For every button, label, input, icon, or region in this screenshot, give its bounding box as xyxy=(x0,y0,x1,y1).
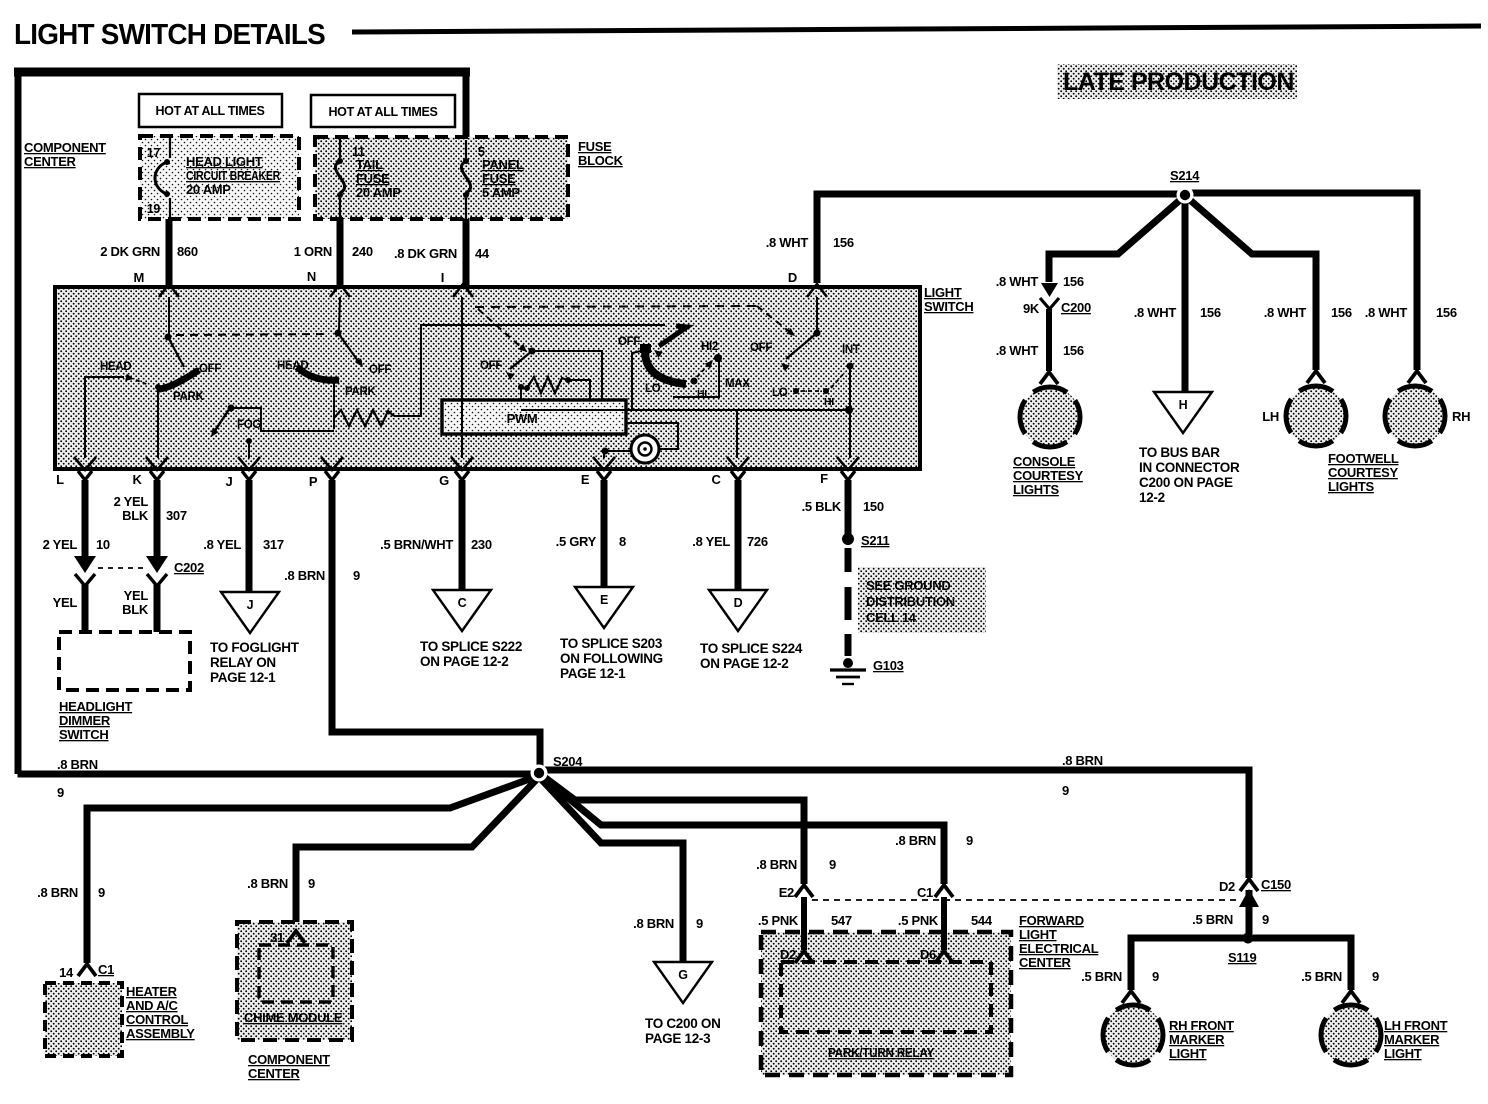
svg-text:S214: S214 xyxy=(1170,168,1200,183)
svg-text:317: 317 xyxy=(263,537,284,552)
svg-text:.8 WHT: .8 WHT xyxy=(1134,305,1177,320)
svg-text:9: 9 xyxy=(1062,783,1069,798)
svg-text:DISTRIBUTION: DISTRIBUTION xyxy=(866,594,955,609)
svg-text:.8 DK GRN: .8 DK GRN xyxy=(394,246,457,261)
svg-text:ASSEMBLY: ASSEMBLY xyxy=(126,1026,195,1041)
svg-text:.8 BRN: .8 BRN xyxy=(37,885,78,900)
terminal chevron bottom xyxy=(74,457,96,470)
svg-text:2 YEL: 2 YEL xyxy=(114,494,149,509)
wire PARK2 contact down xyxy=(331,378,337,384)
circuit breaker symbol xyxy=(169,137,171,158)
svg-text:156: 156 xyxy=(1436,305,1457,320)
svg-text:10: 10 xyxy=(96,537,110,552)
svg-text:C: C xyxy=(711,472,721,487)
switch pivot M xyxy=(168,297,170,334)
svg-text:31: 31 xyxy=(270,930,284,945)
svg-text:BLK: BLK xyxy=(122,508,149,523)
svg-text:YEL: YEL xyxy=(53,595,78,610)
svg-text:307: 307 xyxy=(166,508,187,523)
svg-text:RH: RH xyxy=(1452,409,1470,424)
svg-text:LIGHTS: LIGHTS xyxy=(1328,479,1374,494)
svg-text:OFF: OFF xyxy=(369,364,391,376)
terminal chevron bottom xyxy=(321,457,343,470)
svg-text:.8 YEL: .8 YEL xyxy=(692,534,730,549)
svg-text:ON PAGE 12-2: ON PAGE 12-2 xyxy=(700,656,788,671)
svg-text:LO: LO xyxy=(645,383,661,395)
svg-text:.8 YEL: .8 YEL xyxy=(203,537,241,552)
svg-text:CONTROL: CONTROL xyxy=(126,1012,189,1027)
switch pivot PWM OFF xyxy=(529,348,536,355)
svg-text:LH FRONT: LH FRONT xyxy=(1384,1018,1448,1033)
svg-text:150: 150 xyxy=(863,499,884,514)
svg-text:.8 WHT: .8 WHT xyxy=(996,274,1039,289)
dashed knob link line xyxy=(475,306,757,307)
svg-text:9K: 9K xyxy=(1023,301,1040,316)
wire S119 to LH marker xyxy=(1252,938,1351,990)
svg-text:HI: HI xyxy=(697,388,707,400)
wire E terminal to motor xyxy=(602,448,609,455)
component box park turn relay outer xyxy=(761,932,1011,1075)
component box HEATER AND A/C CONTROL ASSEMBLY xyxy=(45,983,122,1056)
svg-text:9: 9 xyxy=(1152,969,1159,984)
tag HOT AT ALL TIMES 2 xyxy=(311,95,455,127)
svg-text:MARKER: MARKER xyxy=(1169,1032,1225,1047)
switch blade D to OFF xyxy=(786,333,817,359)
svg-text:.5 GRY: .5 GRY xyxy=(556,534,597,549)
svg-text:156: 156 xyxy=(1063,343,1084,358)
wire 317 .8 YEL terminal J to foglight connector xyxy=(246,480,253,592)
wire resistor to dimmer feed xyxy=(394,325,665,416)
dashed link arrow to PWM switch xyxy=(478,309,522,348)
svg-text:AND A/C: AND A/C xyxy=(126,998,178,1013)
lamp RH front marker xyxy=(1122,991,1140,1003)
terminal chevron top xyxy=(330,284,350,297)
svg-text:8: 8 xyxy=(619,534,626,549)
svg-text:.5 BLK: .5 BLK xyxy=(802,499,842,514)
component box COMPONENT CENTER chime outer xyxy=(237,922,352,1040)
terminal chevron bottom xyxy=(146,457,168,470)
dimmer OFF contact xyxy=(640,344,651,353)
wire L to HEAD contact xyxy=(85,377,124,458)
svg-text:J: J xyxy=(247,598,254,612)
svg-text:9: 9 xyxy=(57,785,64,800)
svg-text:PAGE 12-3: PAGE 12-3 xyxy=(645,1031,711,1046)
svg-text:M: M xyxy=(133,270,144,285)
svg-text:TO SPLICE S203: TO SPLICE S203 xyxy=(560,636,663,651)
lamp RH footwell xyxy=(1408,371,1426,383)
mechanical link dashed switch1-switch2 xyxy=(176,334,330,335)
svg-text:9: 9 xyxy=(308,876,315,891)
note SEE GROUND DISTRIBUTION CELL 14 xyxy=(858,567,986,633)
switch pivot D xyxy=(816,297,818,330)
terminal chevron bottom xyxy=(451,457,473,470)
wire S119 to RH marker xyxy=(1131,938,1245,990)
off-page connector J foglight relay xyxy=(221,592,279,633)
dimmer rheostat arc xyxy=(645,351,686,384)
component box HEADLIGHT DIMMER SWITCH xyxy=(59,632,190,690)
svg-text:C1: C1 xyxy=(98,962,114,977)
off-page connector G to C200 xyxy=(654,962,712,1003)
svg-text:C200 ON PAGE: C200 ON PAGE xyxy=(1139,475,1233,490)
wire FOG contact to J xyxy=(246,438,252,444)
svg-text:.8 BRN: .8 BRN xyxy=(247,876,288,891)
relay terminal D6 xyxy=(935,951,953,963)
wire INT to F xyxy=(849,366,851,458)
dimmer frame lines xyxy=(632,351,641,410)
svg-text:OFF: OFF xyxy=(480,360,502,372)
wire S214 to H connector xyxy=(1182,199,1189,391)
svg-text:44: 44 xyxy=(475,246,490,261)
svg-text:N: N xyxy=(307,269,316,284)
component box CHIME MODULE inner xyxy=(259,945,333,1002)
svg-text:C200: C200 xyxy=(1061,300,1091,315)
svg-text:.8 WHT: .8 WHT xyxy=(1264,305,1307,320)
svg-text:K: K xyxy=(132,472,142,487)
wire S204 to C150 marker lights xyxy=(539,770,1249,878)
svg-text:.8 BRN: .8 BRN xyxy=(895,833,936,848)
svg-text:FOG: FOG xyxy=(237,419,261,431)
svg-text:BLK: BLK xyxy=(122,602,149,617)
svg-text:HEATER: HEATER xyxy=(126,984,178,999)
svg-text:D2: D2 xyxy=(1219,879,1235,894)
svg-text:547: 547 xyxy=(831,913,852,928)
svg-text:J: J xyxy=(226,474,233,489)
svg-text:CONSOLE: CONSOLE xyxy=(1013,454,1076,469)
wire PWM to motor loop xyxy=(626,423,678,449)
svg-text:CENTER: CENTER xyxy=(248,1066,301,1081)
svg-text:.5 PNK: .5 PNK xyxy=(898,913,939,928)
svg-text:HI2: HI2 xyxy=(701,341,718,353)
svg-text:OFF: OFF xyxy=(199,363,221,375)
svg-text:156: 156 xyxy=(833,235,854,250)
svg-text:860: 860 xyxy=(177,244,198,259)
wire 230 .5 BRN-WHT terminal G to splice connector xyxy=(459,480,466,590)
svg-text:.8 BRN: .8 BRN xyxy=(633,916,674,931)
motor symbol xyxy=(631,435,659,463)
banner LATE PRODUCTION xyxy=(1057,64,1297,99)
svg-text:.8 BRN: .8 BRN xyxy=(756,857,797,872)
rheostat contact xyxy=(518,384,524,390)
svg-text:.8 WHT: .8 WHT xyxy=(996,343,1039,358)
svg-text:RH FRONT: RH FRONT xyxy=(1169,1018,1234,1033)
svg-text:F: F xyxy=(820,471,828,486)
svg-text:HOT AT ALL TIMES: HOT AT ALL TIMES xyxy=(328,105,437,119)
switch FOG pivot and feed xyxy=(228,405,235,412)
dimmer HI contact and dashed arrow xyxy=(691,378,698,385)
svg-text:COURTESY: COURTESY xyxy=(1013,468,1083,483)
tag HOT AT ALL TIMES 1 xyxy=(139,94,282,127)
wire 726 .8 YEL terminal C to splice connector xyxy=(735,480,742,590)
svg-text:20 AMP: 20 AMP xyxy=(186,182,231,197)
svg-text:YEL: YEL xyxy=(124,588,149,603)
wire S204 to chime module xyxy=(296,779,537,930)
svg-text:LIGHTS: LIGHTS xyxy=(1013,482,1059,497)
svg-text:TO BUS BAR: TO BUS BAR xyxy=(1139,445,1220,460)
svg-text:SWITCH: SWITCH xyxy=(924,299,973,314)
terminal chevron top xyxy=(453,284,473,297)
terminal chevron top xyxy=(807,284,827,297)
wire 150 .5 BLK terminal F to S211 xyxy=(845,480,852,534)
svg-text:.5 PNK: .5 PNK xyxy=(758,913,799,928)
svg-text:LIGHT SWITCH DETAILS: LIGHT SWITCH DETAILS xyxy=(14,19,325,51)
connector C202 xyxy=(74,556,96,573)
off-page connector H to bus bar xyxy=(1154,392,1212,433)
svg-text:S119: S119 xyxy=(1228,950,1257,965)
svg-text:E: E xyxy=(600,593,608,607)
svg-text:CELL 14: CELL 14 xyxy=(866,610,917,625)
svg-text:TO FOGLIGHT: TO FOGLIGHT xyxy=(210,640,300,655)
svg-text:PARK/TURN RELAY: PARK/TURN RELAY xyxy=(828,1045,935,1060)
switch blade 2 wiper arc xyxy=(297,367,339,380)
wire C200 to console lamp xyxy=(1046,309,1052,371)
connector C150 D2 xyxy=(1240,879,1258,891)
wire S204 to E2 park-turn relay xyxy=(543,776,804,884)
svg-text:FUSE: FUSE xyxy=(356,171,390,186)
wire 240 1 ORN tail fuse to terminal N xyxy=(337,219,344,287)
dashed connector line E2 C1 C150 xyxy=(812,899,1240,901)
svg-text:D2: D2 xyxy=(780,947,796,962)
svg-text:G: G xyxy=(678,968,687,982)
svg-text:2 YEL: 2 YEL xyxy=(43,537,78,552)
svg-text:INT: INT xyxy=(842,344,860,356)
dashed arrow to HEAD contact xyxy=(125,374,134,381)
wire S204 to C1 park-turn relay xyxy=(545,779,944,884)
svg-text:COURTESY: COURTESY xyxy=(1328,465,1398,480)
svg-text:LO: LO xyxy=(772,387,788,399)
wire rheostat to PWM box xyxy=(568,380,590,400)
svg-text:E: E xyxy=(581,472,590,487)
svg-text:TO SPLICE S222: TO SPLICE S222 xyxy=(420,639,522,654)
fuse PANEL FUSE symbol xyxy=(465,140,467,158)
wire 544 .5 PNK C1 to relay D6 xyxy=(941,897,947,950)
svg-text:LIGHT: LIGHT xyxy=(924,285,962,300)
svg-text:PANEL: PANEL xyxy=(482,157,524,172)
off-page connector E splice S203 xyxy=(575,587,633,628)
wire I-G line over PWM box xyxy=(461,400,463,434)
svg-text:.8 WHT: .8 WHT xyxy=(1365,305,1408,320)
wire dimmer bus xyxy=(521,409,849,411)
dashed link arrow to dome switch xyxy=(757,306,791,333)
wire YEL to headlight dimmer switch xyxy=(82,584,89,634)
svg-text:HEAD LIGHT: HEAD LIGHT xyxy=(186,154,263,169)
svg-text:.5 BRN: .5 BRN xyxy=(1301,969,1342,984)
resistor park feed zigzag xyxy=(334,410,394,426)
connector C200 xyxy=(1041,283,1058,297)
component box fuse block xyxy=(315,137,568,219)
svg-text:156: 156 xyxy=(1200,305,1221,320)
svg-text:PAGE 12-1: PAGE 12-1 xyxy=(560,666,626,681)
wire pivot to PWM box xyxy=(532,351,602,400)
svg-text:.5 BRN/WHT: .5 BRN/WHT xyxy=(380,537,453,552)
svg-text:FOOTWELL: FOOTWELL xyxy=(1328,451,1399,466)
svg-text:HEAD: HEAD xyxy=(100,361,131,373)
module box PWM xyxy=(442,400,626,434)
wire 307 2 YEL BLK terminal K to C202 xyxy=(154,480,161,558)
splice S211 xyxy=(842,533,854,545)
ground G103 xyxy=(843,658,853,668)
svg-text:HOT AT ALL TIMES: HOT AT ALL TIMES xyxy=(155,104,264,118)
wire S214 to RH footwell xyxy=(1189,193,1417,370)
relay terminal D2 xyxy=(795,951,813,963)
svg-text:D: D xyxy=(788,270,797,285)
svg-text:LIGHT: LIGHT xyxy=(1384,1046,1422,1061)
svg-text:19: 19 xyxy=(147,202,161,216)
svg-text:OFF: OFF xyxy=(750,342,772,354)
svg-text:12-2: 12-2 xyxy=(1139,490,1165,505)
svg-text:FORWARD: FORWARD xyxy=(1019,913,1084,928)
svg-text:D6: D6 xyxy=(920,947,936,962)
splice S204 dot xyxy=(531,765,548,782)
svg-text:HEADLIGHT: HEADLIGHT xyxy=(59,699,132,714)
connector chime terminal 31 xyxy=(287,931,305,943)
wire 10 2 YEL terminal L to C202 xyxy=(82,480,89,558)
svg-text:H: H xyxy=(1179,398,1188,412)
svg-text:CENTER: CENTER xyxy=(1019,955,1072,970)
svg-text:CIRCUIT BREAKER: CIRCUIT BREAKER xyxy=(186,168,281,183)
terminal chevron bottom xyxy=(727,457,749,470)
switch blade FOG xyxy=(214,408,230,432)
wire 547 .5 PNK E2 to relay D2 xyxy=(801,897,807,950)
svg-text:9: 9 xyxy=(1262,912,1269,927)
svg-text:9: 9 xyxy=(966,833,973,848)
wire 9 .8 BRN terminal P to S204 xyxy=(332,480,540,766)
off-page connector C splice S222 xyxy=(433,590,491,631)
svg-text:BLOCK: BLOCK xyxy=(578,153,624,168)
wire top feed xyxy=(18,72,466,774)
lamp LH front marker xyxy=(1342,991,1360,1003)
wire 9 .8 BRN left feed to S204 xyxy=(18,771,536,778)
svg-text:PAGE 12-1: PAGE 12-1 xyxy=(210,670,276,685)
svg-text:CENTER: CENTER xyxy=(24,154,77,169)
svg-text:240: 240 xyxy=(352,244,373,259)
switch blade 2 to OFF xyxy=(338,333,358,361)
svg-text:20 AMP: 20 AMP xyxy=(356,185,401,200)
wire bus to C terminal xyxy=(736,410,738,458)
svg-text:IN CONNECTOR: IN CONNECTOR xyxy=(1139,460,1240,475)
svg-text:.5 BRN: .5 BRN xyxy=(1192,912,1233,927)
svg-text:156: 156 xyxy=(1331,305,1352,320)
svg-text:TO C200 ON: TO C200 ON xyxy=(645,1016,721,1031)
svg-text:C150: C150 xyxy=(1261,877,1291,892)
connector C1 flec xyxy=(935,885,953,897)
svg-text:G103: G103 xyxy=(873,658,904,673)
svg-text:COMPONENT: COMPONENT xyxy=(24,140,106,155)
svg-text:14: 14 xyxy=(59,965,74,980)
svg-text:.8 BRN: .8 BRN xyxy=(1062,753,1103,768)
svg-text:PARK: PARK xyxy=(345,386,377,398)
svg-text:FUSE: FUSE xyxy=(482,171,516,186)
svg-text:9: 9 xyxy=(696,916,703,931)
svg-text:230: 230 xyxy=(471,537,492,552)
svg-text:726: 726 xyxy=(747,534,768,549)
svg-text:ELECTRICAL: ELECTRICAL xyxy=(1019,941,1099,956)
svg-text:.8 BRN: .8 BRN xyxy=(57,757,98,772)
svg-text:COMPONENT: COMPONENT xyxy=(248,1052,330,1067)
wire S204 to C200 page 12-3 xyxy=(541,779,683,962)
wire .5 BRN C150 to S119 xyxy=(1246,890,1253,934)
svg-text:.8 BRN: .8 BRN xyxy=(284,568,325,583)
svg-text:OFF: OFF xyxy=(618,336,640,348)
svg-text:LH: LH xyxy=(1262,409,1279,424)
component box head light circuit breaker xyxy=(140,136,299,219)
component box PARK TURN RELAY inner xyxy=(781,962,991,1032)
resistor rheostat zigzag xyxy=(524,385,530,391)
wire terminal I to terminal G xyxy=(461,297,463,458)
svg-text:SEE GROUND: SEE GROUND xyxy=(866,578,950,593)
svg-text:PARK: PARK xyxy=(173,391,205,403)
wire 8 .5 GRY terminal E to splice connector xyxy=(601,480,608,587)
svg-text:C: C xyxy=(458,596,467,610)
svg-text:544: 544 xyxy=(971,913,993,928)
wire 860 2 DK GRN circuit breaker to terminal M xyxy=(166,219,173,287)
wire YEL BLK to headlight dimmer switch xyxy=(154,584,161,634)
off-page connector D splice S224 xyxy=(709,590,767,631)
svg-text:SWITCH: SWITCH xyxy=(59,727,108,742)
svg-text:TAIL: TAIL xyxy=(356,157,383,172)
dashed ground wire S211 to G103 xyxy=(845,548,852,572)
svg-text:LIGHT: LIGHT xyxy=(1019,927,1057,942)
lamp console courtesy xyxy=(1040,372,1058,384)
svg-text:RELAY ON: RELAY ON xyxy=(210,655,276,670)
svg-text:.5 BRN: .5 BRN xyxy=(1081,969,1122,984)
svg-text:LIGHT: LIGHT xyxy=(1169,1046,1207,1061)
svg-text:1 ORN: 1 ORN xyxy=(294,244,332,259)
component box LIGHT SWITCH xyxy=(55,287,920,469)
terminal chevron top xyxy=(159,284,179,297)
svg-text:MARKER: MARKER xyxy=(1384,1032,1440,1047)
svg-text:MAX: MAX xyxy=(725,378,750,390)
svg-text:D: D xyxy=(734,596,743,610)
svg-text:C1: C1 xyxy=(917,885,933,900)
svg-text:CHIME MODULE: CHIME MODULE xyxy=(244,1010,343,1025)
svg-text:HI: HI xyxy=(824,396,834,408)
svg-text:ON PAGE 12-2: ON PAGE 12-2 xyxy=(420,654,508,669)
terminal chevron bottom xyxy=(837,457,859,470)
svg-text:C202: C202 xyxy=(174,560,204,575)
svg-text:156: 156 xyxy=(1063,274,1084,289)
INT contact xyxy=(847,363,854,370)
svg-text:9: 9 xyxy=(353,568,360,583)
connector E2 xyxy=(795,885,813,897)
svg-text:9: 9 xyxy=(98,885,105,900)
svg-text:9: 9 xyxy=(829,857,836,872)
terminal chevron bottom xyxy=(238,457,260,470)
title rule xyxy=(352,26,1481,32)
fuse TAIL FUSE symbol xyxy=(339,137,341,158)
wire 156 .8 WHT terminal D to S214 xyxy=(817,194,1181,283)
svg-text:G: G xyxy=(439,473,449,488)
svg-text:9: 9 xyxy=(1372,969,1379,984)
svg-text:LATE PRODUCTION: LATE PRODUCTION xyxy=(1063,68,1294,96)
switch blade 1 PARK-OFF wiper xyxy=(168,337,184,367)
wire 44 .8 DK GRN panel fuse to terminal I xyxy=(463,219,470,287)
wire S204 to heater branch xyxy=(87,777,535,963)
lamp LH footwell xyxy=(1307,371,1325,383)
svg-text:TO SPLICE S224: TO SPLICE S224 xyxy=(700,641,803,656)
splice S119 xyxy=(1243,933,1254,944)
switch pivot N xyxy=(339,297,340,330)
svg-text:I: I xyxy=(441,270,444,285)
connector C1 heater xyxy=(78,964,96,976)
svg-text:17: 17 xyxy=(147,146,161,160)
svg-text:ON FOLLOWING: ON FOLLOWING xyxy=(560,651,663,666)
wire S214 to LH footwell xyxy=(1190,200,1316,370)
wire S214 to console courtesy via C200 xyxy=(1049,200,1180,282)
svg-text:E2: E2 xyxy=(779,885,794,900)
svg-text:2 DK GRN: 2 DK GRN xyxy=(100,244,160,259)
svg-text:PWM: PWM xyxy=(507,411,538,426)
svg-text:P: P xyxy=(309,474,318,489)
